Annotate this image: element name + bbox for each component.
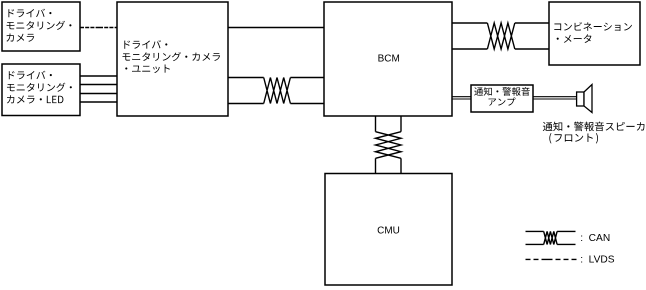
label: speaker line2 — [549, 133, 598, 143]
label: amp line1 — [474, 87, 530, 96]
wire: unit to BCM (top) — [228, 27, 324, 29]
label: speaker line1 — [543, 122, 645, 132]
svg-text:CMU: CMU — [377, 225, 400, 236]
CAN bus: unit to BCM — [228, 78, 324, 104]
wire: LVDS camera to unit (dash-dot) — [80, 27, 117, 29]
svg-text:: CAN: : CAN — [580, 233, 610, 244]
svg-text:BCM: BCM — [378, 53, 400, 64]
label: LED line3 — [7, 95, 64, 103]
label: amp line2 — [489, 98, 516, 106]
label: combination meter line1 — [554, 22, 632, 31]
box: BCM — [324, 2, 452, 116]
legend: LVDS symbol — [526, 258, 577, 260]
wire: LED harness line 2 — [80, 84, 117, 86]
box: driver monitoring camera LED — [2, 64, 80, 116]
box: notification/alarm amp — [471, 85, 533, 112]
wire: LED harness line 3 — [80, 93, 117, 95]
wire: LED harness line 1 — [80, 75, 117, 77]
label: driver monitoring camera line3 — [6, 33, 34, 41]
box: combination meter — [549, 2, 640, 65]
CAN bus: BCM to combination meter — [452, 23, 549, 49]
box: driver monitoring camera unit — [117, 2, 228, 116]
label: LED line1 — [9, 71, 52, 80]
label: combination meter line2 — [557, 34, 592, 43]
label: unit line2 — [122, 52, 220, 61]
speaker icon — [577, 85, 592, 113]
box: driver monitoring camera — [2, 2, 80, 51]
legend: CAN symbol — [526, 231, 576, 244]
wire: LED harness line 4 — [80, 101, 117, 103]
wire: BCM to amp (double line) — [452, 97, 471, 99]
label: driver monitoring camera line1 — [8, 9, 51, 18]
wire: amp to speaker (double line) — [533, 97, 577, 99]
svg-text:: LVDS: : LVDS — [580, 255, 615, 266]
label: driver monitoring camera line2 — [7, 21, 72, 30]
label: unit line1 — [124, 40, 167, 49]
box: CMU — [325, 174, 452, 286]
CAN bus: BCM to CMU (vertical) — [376, 116, 402, 174]
label: unit line3 — [125, 65, 170, 73]
label: LED line2 — [7, 83, 72, 92]
